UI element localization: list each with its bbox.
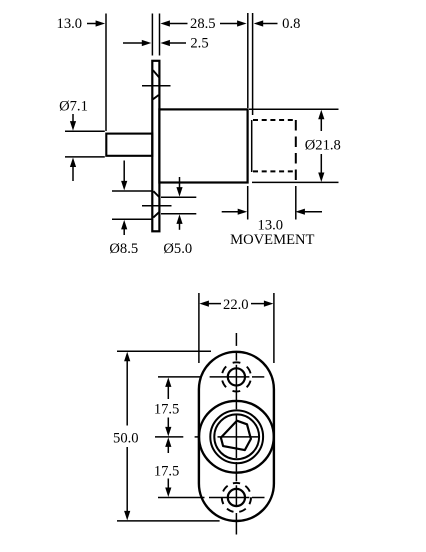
svg-text:17.5: 17.5 [154, 464, 180, 480]
svg-text:13.0: 13.0 [57, 16, 83, 32]
svg-text:17.5: 17.5 [154, 402, 180, 418]
svg-text:Ø5.0: Ø5.0 [163, 241, 192, 257]
svg-text:2.5: 2.5 [190, 36, 208, 52]
svg-text:MOVEMENT: MOVEMENT [230, 232, 314, 248]
svg-text:13.0: 13.0 [258, 217, 284, 233]
svg-text:22.0: 22.0 [223, 297, 249, 313]
svg-text:0.8: 0.8 [282, 16, 300, 32]
svg-text:Ø21.8: Ø21.8 [305, 138, 341, 154]
svg-text:Ø8.5: Ø8.5 [109, 241, 138, 257]
svg-text:Ø7.1: Ø7.1 [59, 99, 88, 115]
svg-text:50.0: 50.0 [113, 430, 139, 446]
svg-text:28.5: 28.5 [190, 16, 216, 32]
